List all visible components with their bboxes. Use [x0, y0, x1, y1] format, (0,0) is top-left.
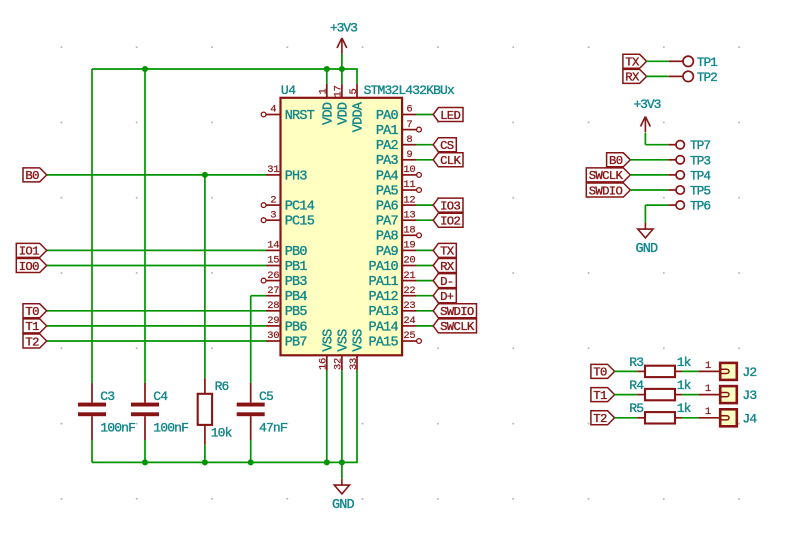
svg-text:PA15: PA15 — [368, 335, 398, 350]
svg-text:PA6: PA6 — [376, 200, 399, 215]
wire net T2 to PB7 — [47, 340, 266, 342]
svg-text:+3V3: +3V3 — [633, 97, 660, 112]
power symbol +3V3 (test point header) — [633, 97, 660, 133]
svg-text:TP4: TP4 — [690, 168, 711, 183]
svg-text:47nF: 47nF — [259, 420, 287, 435]
svg-text:3: 3 — [270, 209, 276, 221]
svg-text:GND: GND — [635, 242, 658, 257]
svg-text:PA4: PA4 — [376, 169, 399, 184]
global label SWDIO (net SWDIO) — [433, 304, 476, 319]
svg-text:D-: D- — [440, 275, 453, 289]
svg-text:J2: J2 — [742, 365, 756, 380]
svg-text:PA9: PA9 — [376, 245, 399, 260]
svg-text:IO1: IO1 — [19, 245, 39, 259]
svg-text:IO0: IO0 — [19, 260, 39, 274]
svg-text:RX: RX — [625, 71, 640, 85]
svg-text:PA0: PA0 — [376, 109, 399, 124]
wire PA to SWCLK — [417, 325, 434, 327]
svg-text:PA10: PA10 — [368, 260, 398, 275]
svg-text:GND: GND — [332, 498, 355, 513]
svg-text:T2: T2 — [25, 335, 39, 349]
wire +3V3 rail to VDDA pin 5 — [92, 69, 357, 84]
svg-text:T0: T0 — [593, 366, 607, 380]
svg-text:PB5: PB5 — [285, 305, 308, 320]
test point TP1 — [669, 56, 694, 66]
wire SWCLK to TP4 — [630, 174, 668, 176]
svg-text:TX: TX — [625, 56, 640, 70]
U4 pin 14 PB0 (left) — [266, 240, 307, 260]
svg-text:PA11: PA11 — [368, 275, 398, 290]
wire net B0 to PH3 — [47, 174, 266, 176]
test point TP5 — [668, 186, 684, 194]
svg-text:7: 7 — [406, 119, 412, 131]
svg-text:VDD: VDD — [336, 102, 351, 125]
wire C5 to GND rail — [250, 440, 252, 462]
global label RX (net RX) — [433, 259, 456, 274]
global label TX (net TX) — [433, 243, 456, 258]
wire PA to SWDIO — [417, 310, 434, 312]
svg-text:28: 28 — [267, 300, 279, 312]
capacitor C5 — [237, 383, 265, 440]
test point TP6 — [668, 201, 684, 209]
svg-text:12: 12 — [403, 194, 415, 206]
resistor R6 — [198, 378, 212, 444]
svg-text:STM32L432KBUx: STM32L432KBUx — [364, 83, 455, 98]
svg-text:30: 30 — [267, 330, 279, 342]
global label SWCLK (net SWCLK) — [433, 319, 476, 334]
global label T2 (to R5) — [591, 411, 615, 426]
svg-text:NRST: NRST — [285, 109, 315, 124]
U4 pin 24 PA14 (right) — [368, 315, 416, 335]
wire C5 up to PB4 net — [250, 296, 252, 383]
svg-text:32: 32 — [333, 358, 345, 370]
U4 pin 33 VSS (bottom) — [348, 329, 367, 371]
svg-text:19: 19 — [403, 240, 415, 252]
svg-text:D+: D+ — [440, 290, 454, 304]
connector J4 — [699, 409, 737, 426]
svg-text:18: 18 — [403, 225, 415, 237]
wire VSS pin 16 to GND rail — [326, 370, 328, 462]
global label T0 (to R3) — [591, 364, 615, 379]
test point TP2 — [669, 71, 694, 81]
wire +3V3 down to C3 — [91, 69, 93, 383]
junction GND/C5 — [248, 459, 254, 465]
svg-text:TP2: TP2 — [697, 70, 717, 85]
svg-text:8: 8 — [406, 134, 412, 146]
global label D+ (net D+) — [433, 289, 456, 304]
svg-text:100nF: 100nF — [100, 420, 135, 435]
wire PA to D- — [417, 280, 434, 282]
wire C4 to GND rail — [144, 440, 146, 462]
wire +3V3 down to C4 — [144, 69, 146, 383]
svg-text:TX: TX — [440, 245, 455, 259]
svg-text:B0: B0 — [25, 169, 39, 183]
U4 pin 7 PA1 (right) — [376, 119, 422, 139]
U4 pin 2 PC14 (left) — [261, 194, 315, 214]
global label CLK (net CLK) — [433, 153, 463, 168]
svg-text:27: 27 — [267, 285, 279, 297]
connector J3 — [699, 386, 737, 403]
svg-text:SWDIO: SWDIO — [589, 184, 623, 198]
svg-text:PC15: PC15 — [285, 215, 315, 230]
svg-text:PH3: PH3 — [285, 169, 308, 184]
svg-text:26: 26 — [267, 270, 279, 282]
svg-text:16: 16 — [318, 358, 330, 370]
U4 pin 10 PA4 (right) — [376, 164, 422, 184]
global label IO2 (net IO2) — [433, 213, 463, 228]
wire PA to D+ — [417, 295, 434, 297]
svg-text:C4: C4 — [153, 389, 168, 404]
U4 pin 22 PA12 (right) — [368, 285, 416, 305]
wire VSS pin 32 to GND rail — [341, 370, 343, 462]
svg-text:13: 13 — [403, 209, 415, 221]
svg-text:IO2: IO2 — [440, 215, 460, 229]
global label T2 (to PB7) — [23, 334, 47, 349]
svg-text:15: 15 — [267, 255, 279, 267]
wire TX to TP1 — [647, 60, 669, 62]
svg-text:J4: J4 — [742, 411, 757, 426]
svg-text:TP5: TP5 — [690, 184, 710, 199]
wire PA to LED — [417, 114, 434, 116]
svg-text:T2: T2 — [593, 412, 607, 426]
junction B0/R6 — [202, 172, 208, 178]
U4 pin 4 NRST (left) — [261, 104, 315, 124]
U4 pin 21 PA11 (right) — [368, 270, 416, 290]
svg-text:T0: T0 — [25, 305, 39, 319]
wire B0 to TP3 — [630, 159, 668, 161]
resistor R3 — [637, 366, 681, 377]
svg-text:9: 9 — [406, 149, 412, 161]
svg-text:14: 14 — [267, 240, 279, 252]
U4 pin 23 PA13 (right) — [368, 300, 416, 320]
svg-text:100nF: 100nF — [153, 420, 188, 435]
U4 pin 3 PC15 (left) — [261, 209, 315, 229]
global label SWDIO (to TP5) — [586, 183, 630, 198]
U4 pin 1 VDD (top) — [318, 84, 337, 125]
svg-text:PA14: PA14 — [368, 320, 398, 335]
connector J2 — [699, 363, 737, 380]
wire R5 to J4 — [682, 417, 699, 419]
svg-text:J3: J3 — [742, 388, 756, 403]
wire net T1 to PB6 — [47, 325, 266, 327]
svg-text:T1: T1 — [593, 389, 607, 403]
global label LED (net LED) — [433, 108, 463, 123]
svg-text:10: 10 — [403, 164, 415, 176]
svg-text:4: 4 — [270, 104, 276, 116]
svg-text:PB3: PB3 — [285, 275, 308, 290]
svg-text:29: 29 — [267, 315, 279, 327]
junction GND/C4 — [142, 459, 148, 465]
wire TP6 to GND (vertical) — [644, 205, 646, 223]
svg-text:11: 11 — [403, 179, 415, 191]
global label RX (to TP2) — [623, 69, 647, 84]
svg-text:VSS: VSS — [321, 329, 336, 352]
wire GND stem — [341, 462, 343, 479]
U4 pin 20 PA10 (right) — [368, 255, 416, 275]
svg-text:VDD: VDD — [321, 102, 336, 125]
global label SWCLK (to TP4) — [586, 168, 630, 183]
wire +3V3 to TP7 (vertical) — [644, 133, 646, 145]
svg-text:1: 1 — [705, 383, 711, 395]
svg-text:PA13: PA13 — [368, 305, 398, 320]
svg-text:1: 1 — [705, 360, 711, 372]
resistor R5 — [637, 412, 681, 423]
U4 pin 12 PA6 (right) — [376, 194, 417, 214]
power symbol GND (test point header) — [635, 223, 658, 257]
svg-text:PB4: PB4 — [285, 290, 308, 305]
wire TP6 to GND — [645, 204, 668, 206]
svg-text:VSS: VSS — [352, 329, 367, 352]
wire PA to CS — [417, 144, 434, 146]
svg-text:5: 5 — [348, 88, 360, 94]
svg-text:TP7: TP7 — [690, 138, 710, 153]
wire RX to TP2 — [647, 75, 669, 77]
svg-text:33: 33 — [348, 358, 360, 370]
svg-text:PA12: PA12 — [368, 290, 398, 305]
U4 pin 28 PB5 (left) — [266, 300, 307, 320]
wire R6 to GND rail — [204, 445, 206, 463]
svg-text:1: 1 — [705, 406, 711, 418]
test point TP3 — [668, 156, 684, 164]
junction GND/VSS32 — [339, 459, 345, 465]
global label TX (to TP1) — [623, 54, 647, 69]
svg-text:PA5: PA5 — [376, 184, 399, 199]
svg-text:PB7: PB7 — [285, 335, 308, 350]
wire T2 to R5 — [615, 417, 638, 419]
wire PB4 to C5 — [251, 295, 266, 297]
svg-text:+3V3: +3V3 — [330, 21, 357, 36]
svg-text:CLK: CLK — [440, 154, 461, 168]
U4 pin 15 PB1 (left) — [266, 255, 307, 275]
global label T1 (to R4) — [591, 388, 615, 403]
op-amp/IC U4 STM32L432KBUx body — [281, 98, 403, 356]
wire SWDIO to TP5 — [630, 189, 668, 191]
svg-text:R3: R3 — [629, 355, 643, 370]
U4 pin 5 VDDA (top) — [348, 84, 367, 132]
svg-text:PB1: PB1 — [285, 260, 308, 275]
svg-text:SWCLK: SWCLK — [440, 320, 475, 334]
U4 pin 27 PB4 (left) — [266, 285, 307, 305]
global label B0 (to TP3) — [607, 153, 631, 168]
U4 pin 13 PA7 (right) — [376, 209, 417, 229]
svg-text:RX: RX — [440, 260, 455, 274]
svg-text:24: 24 — [403, 315, 415, 327]
wire rail to VDD pin 17 — [341, 69, 343, 84]
svg-text:PA7: PA7 — [376, 215, 399, 230]
junction GND/VSS16 — [324, 459, 330, 465]
U4 pin 9 PA3 (right) — [376, 149, 417, 169]
U4 pin 26 PB3 (left) — [261, 270, 307, 290]
junction GND/R6 — [202, 459, 208, 465]
svg-text:LED: LED — [440, 109, 460, 123]
svg-text:1k: 1k — [677, 401, 692, 416]
svg-text:22: 22 — [403, 285, 415, 297]
svg-text:TP3: TP3 — [690, 153, 710, 168]
capacitor C4 — [131, 383, 159, 440]
wire net T0 to PB5 — [47, 310, 266, 312]
global label IO1 (to PB0) — [16, 243, 46, 258]
U4 pin 16 VSS (bottom) — [318, 329, 337, 371]
svg-text:31: 31 — [267, 164, 279, 176]
global label B0 (to PH3) — [23, 168, 47, 183]
wire R3 to J2 — [682, 370, 699, 372]
svg-text:CS: CS — [440, 139, 454, 153]
svg-text:PA8: PA8 — [376, 230, 399, 245]
svg-text:1k: 1k — [677, 355, 692, 370]
global label T1 (to PB6) — [23, 319, 47, 334]
svg-text:PA1: PA1 — [376, 124, 399, 139]
wire T1 to R4 — [615, 394, 638, 396]
capacitor C3 — [78, 383, 106, 440]
U4 pin 18 PA8 (right) — [376, 225, 422, 245]
U4 pin 31 PH3 (left) — [266, 164, 307, 184]
wire PA to IO3 — [417, 204, 434, 206]
svg-text:25: 25 — [403, 330, 415, 342]
wire PA to CLK — [417, 159, 434, 161]
svg-text:2: 2 — [270, 194, 276, 206]
svg-text:VDDA: VDDA — [352, 101, 367, 132]
U4 pin 32 VSS (bottom) — [333, 329, 352, 371]
global label CS (net CS) — [433, 138, 456, 153]
global label T0 (to PB5) — [23, 304, 47, 319]
svg-text:1: 1 — [318, 88, 330, 94]
wire +3V3 stem — [341, 54, 343, 69]
wire T0 to R3 — [615, 370, 638, 372]
svg-text:PB0: PB0 — [285, 245, 308, 260]
wire net IO1 to PB0 — [47, 249, 266, 251]
U4 pin 6 PA0 (right) — [376, 104, 417, 124]
U4 pin 11 PA5 (right) — [376, 179, 422, 199]
wire PA to TX — [417, 249, 434, 251]
wire rail to VDD pin 1 — [326, 69, 328, 84]
svg-text:R4: R4 — [629, 378, 644, 393]
test point TP4 — [668, 171, 684, 179]
resistor R4 — [637, 389, 681, 400]
svg-text:IO3: IO3 — [440, 199, 460, 213]
svg-text:PB6: PB6 — [285, 320, 308, 335]
svg-text:PA3: PA3 — [376, 154, 399, 169]
svg-text:B0: B0 — [609, 154, 623, 168]
svg-text:C3: C3 — [100, 389, 114, 404]
wire +3V3 to TP7 — [645, 144, 668, 146]
wire R4 to J3 — [682, 394, 699, 396]
junction +3V3/pin17 — [339, 66, 345, 72]
wire net IO0 to PB1 — [47, 265, 266, 267]
svg-text:T1: T1 — [25, 320, 39, 334]
U4 pin 25 PA15 (right) — [368, 330, 421, 350]
svg-text:21: 21 — [403, 270, 415, 282]
svg-text:C5: C5 — [259, 389, 273, 404]
wire PA to IO2 — [417, 219, 434, 221]
svg-text:10k: 10k — [211, 425, 233, 440]
global label IO3 (net IO3) — [433, 198, 463, 213]
junction +3V3/C4 — [142, 66, 148, 72]
svg-text:SWCLK: SWCLK — [589, 169, 624, 183]
svg-text:23: 23 — [403, 300, 415, 312]
svg-text:SWDIO: SWDIO — [440, 305, 474, 319]
svg-text:TP1: TP1 — [697, 55, 718, 70]
power symbol GND (bottom of sheet) — [332, 479, 355, 513]
wire GND rail up to VSS pin 33 — [92, 370, 357, 462]
svg-text:6: 6 — [406, 104, 412, 116]
svg-text:R6: R6 — [215, 379, 229, 394]
U4 pin 29 PB6 (left) — [266, 315, 307, 335]
svg-text:17: 17 — [333, 85, 345, 97]
svg-text:1k: 1k — [677, 378, 692, 393]
svg-text:R5: R5 — [629, 401, 643, 416]
global label IO0 (to PB1) — [16, 259, 46, 274]
wire PA to RX — [417, 265, 434, 267]
wire C3 to GND rail — [91, 440, 93, 462]
svg-text:U4: U4 — [281, 83, 296, 98]
svg-text:TP6: TP6 — [690, 199, 710, 214]
U4 pin 19 PA9 (right) — [376, 240, 417, 260]
junction +3V3/pin1 — [324, 66, 330, 72]
svg-text:PA2: PA2 — [376, 139, 399, 154]
power symbol +3V3 (top of sheet) — [330, 21, 357, 54]
U4 pin 30 PB7 (left) — [266, 330, 307, 350]
svg-text:PC14: PC14 — [285, 200, 315, 215]
test point TP7 — [668, 141, 684, 149]
U4 pin 17 VDD (top) — [333, 84, 352, 125]
U4 pin 8 PA2 (right) — [376, 134, 417, 154]
svg-text:VSS: VSS — [336, 329, 351, 352]
svg-text:20: 20 — [403, 255, 415, 267]
wire B0 down to R6 — [204, 175, 206, 378]
global label D- (net D-) — [433, 274, 456, 289]
